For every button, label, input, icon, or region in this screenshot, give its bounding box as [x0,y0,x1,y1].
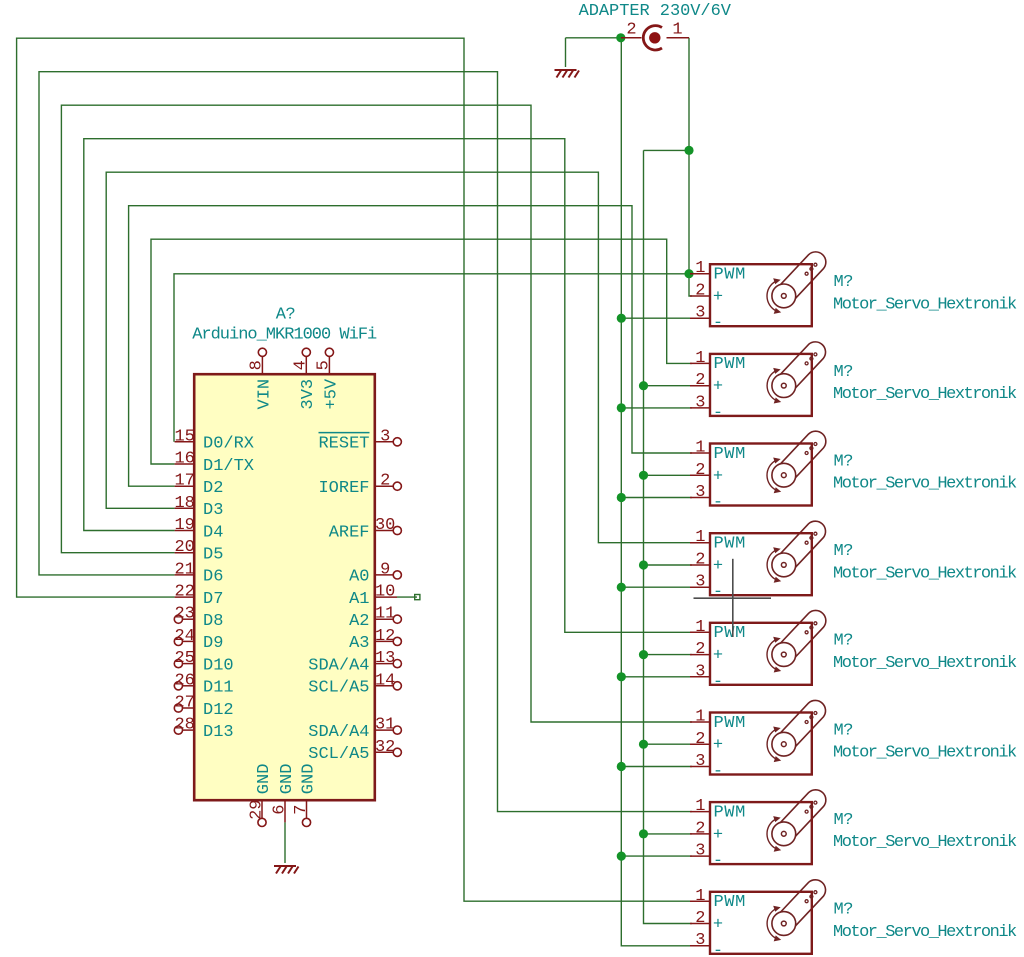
svg-text:21: 21 [174,560,194,579]
pin 9 A0 [375,574,393,576]
svg-text:27: 27 [174,694,194,713]
pin 3 RESET [375,441,393,443]
pin 11 A2 [375,618,393,620]
svg-text:D0/RX: D0/RX [203,435,254,454]
servo arm dots (M3) [805,452,808,455]
servo body box (M2) [710,354,812,416]
svg-text:3: 3 [695,304,705,323]
svg-text:PWM: PWM [714,266,746,285]
junction [684,146,693,155]
connector J1 ADAPTER barrel jack [621,26,689,50]
pin 1 PWM (M7) [690,811,710,813]
svg-text:GND: GND [278,764,297,795]
pin 2 + (M3) [690,474,710,476]
svg-text:-: - [713,494,723,513]
svg-text:9: 9 [380,560,390,579]
wire A1 stub [397,596,417,598]
pin 25 D10 [183,663,195,665]
junction [639,471,648,480]
servo hub circle (M1) [772,284,796,308]
pin 10 A1 [375,596,397,598]
pin 1 PWM (M6) [690,721,710,723]
wire D5 to servo M6 PWM [61,105,692,722]
junction [617,403,626,412]
svg-text:A3: A3 [349,634,369,653]
svg-text:-: - [713,583,723,602]
svg-text:D4: D4 [203,523,223,542]
junction [617,314,626,323]
svg-text:24: 24 [174,627,194,646]
wire D2 to servo M3 PWM [129,206,692,487]
servo hub circle (M8) [772,912,796,936]
svg-text:2: 2 [695,819,705,838]
svg-text:12: 12 [375,627,395,646]
svg-text:18: 18 [174,494,194,513]
wire +6V branch to servo M5 [644,654,693,656]
svg-text:16: 16 [174,450,194,469]
servo rotation arrow (M1) [767,281,776,311]
svg-text:2: 2 [695,461,705,480]
svg-text:31: 31 [375,716,395,735]
wire GND branch to servo M3 [621,497,692,499]
svg-text:1: 1 [695,439,705,458]
pin 3 - (M8) [690,945,710,947]
servo body box (M8) [710,892,812,954]
pin 14 SCL/A5 [375,685,393,687]
pin 16 D1/TX [175,463,195,465]
junction [639,740,648,749]
wire D6 to servo M7 PWM [39,72,692,812]
wire +6V feed from adapter pin1 [689,38,692,296]
wire +6V branch to servo M4 [644,564,693,566]
svg-text:11: 11 [375,605,395,624]
servo arm (M1) [776,252,825,303]
servo arm (M4) [776,521,825,572]
svg-text:14: 14 [375,671,395,690]
wire GND branch to servo M7 [621,855,692,857]
svg-text:SCL/A5: SCL/A5 [308,679,369,698]
svg-text:5: 5 [314,360,333,370]
svg-text:30: 30 [375,516,395,535]
pin 29 GND (bottom) [261,800,263,818]
junction [617,672,626,681]
motor M6 Motor_Servo_Hextronik [690,700,1017,781]
servo hub circle (M2) [772,374,796,398]
svg-text:A1: A1 [349,590,369,609]
svg-text:A0: A0 [349,568,369,587]
svg-text:D9: D9 [203,634,223,653]
svg-text:PWM: PWM [714,893,746,912]
svg-text:-: - [713,942,723,957]
wire GND branch to servo M4 [621,586,692,588]
wire +6V branch to servo M2 [644,385,693,387]
svg-text:D11: D11 [203,679,234,698]
svg-text:ADAPTER 230V/6V: ADAPTER 230V/6V [579,2,732,21]
pin 3 - (M4) [690,586,710,588]
svg-text:PWM: PWM [714,535,746,554]
svg-text:M?: M? [834,721,853,740]
svg-text:PWM: PWM [714,714,746,733]
svg-text:M?: M? [834,901,853,920]
pin 1 PWM (M2) [690,362,710,364]
pin 2 + (M4) [690,564,710,566]
svg-text:3: 3 [695,393,705,412]
svg-text:Motor_Servo_Hextronik: Motor_Servo_Hextronik [833,654,1017,673]
svg-text:2: 2 [695,371,705,390]
svg-text:1: 1 [695,708,705,727]
svg-text:20: 20 [174,538,194,557]
servo arm (M2) [776,342,825,393]
servo arm (M6) [776,700,825,751]
svg-text:Motor_Servo_Hextronik: Motor_Servo_Hextronik [833,385,1017,404]
servo rotation arrow (M7) [767,819,776,849]
svg-text:3: 3 [695,662,705,681]
svg-text:4: 4 [291,360,310,370]
svg-text:GND: GND [299,764,318,795]
servo body box (M3) [710,444,812,506]
junction [617,852,626,861]
wire +6V tap to bus [644,149,690,151]
svg-text:M?: M? [834,363,853,382]
motor M7 Motor_Servo_Hextronik [690,790,1017,871]
wire D0 to servo M1 PWM [174,274,692,442]
stray cross vertical [732,559,734,637]
wire adapter pin2 to ground [566,37,621,39]
svg-text:+: + [713,378,723,397]
wire ground stem [565,38,567,67]
svg-text:3: 3 [695,842,705,861]
ground adapter [555,70,580,78]
svg-text:M?: M? [834,542,853,561]
svg-text:29: 29 [248,799,267,819]
pin 5 +5V (top) [328,356,330,374]
junction [639,560,648,569]
motor M4 Motor_Servo_Hextronik [690,521,1017,602]
wire GND branch to servo M6 [621,766,692,768]
pin 3 - (M3) [690,497,710,499]
pin 1 PWM (M1) [690,273,710,275]
svg-text:IOREF: IOREF [318,479,369,498]
wire +6V branch to servo M3 [644,474,693,476]
svg-text:15: 15 [174,427,194,446]
svg-text:2: 2 [626,20,636,39]
svg-text:25: 25 [174,649,194,668]
pin 1 PWM (M8) [690,900,710,902]
junction [617,493,626,502]
servo arm (M3) [776,431,825,482]
svg-text:+: + [713,736,723,755]
servo arm dots (M5) [805,631,808,634]
svg-text:-: - [713,852,723,871]
servo hub circle (M5) [772,643,796,667]
svg-text:D5: D5 [203,546,223,565]
wire +6V branch to servo M7 [644,833,693,835]
svg-text:+: + [713,826,723,845]
servo arm (M8) [776,880,825,931]
svg-text:2: 2 [695,640,705,659]
pin 20 D5 [175,552,195,554]
wire D4 to servo M5 PWM [84,139,692,633]
svg-text:D6: D6 [203,568,223,587]
servo hub circle (M4) [772,553,796,577]
servo arm (M5) [776,610,825,661]
pin 7 GND (bottom) [306,800,308,818]
junction [617,583,626,592]
svg-text:1: 1 [695,797,705,816]
pin 4 3V3 (top) [305,356,307,374]
junction [639,829,648,838]
pin 23 D8 [183,618,195,620]
wire GND bus [621,38,692,946]
wire +6V branch to servo M6 [644,743,693,745]
servo hub circle (M7) [772,822,796,846]
svg-text:D8: D8 [203,612,223,631]
svg-text:+: + [713,467,723,486]
svg-text:7: 7 [292,805,311,815]
wire GND branch to servo M2 [621,407,692,409]
svg-text:22: 22 [174,583,194,602]
svg-text:1: 1 [695,618,705,637]
svg-text:D12: D12 [203,701,234,720]
svg-text:19: 19 [174,516,194,535]
motor M2 Motor_Servo_Hextronik [690,342,1017,423]
junction [617,762,626,771]
svg-text:GND: GND [255,764,274,795]
servo hub circle (M3) [772,463,796,487]
pin 2 + (M2) [690,385,710,387]
pin 26 D11 [183,685,195,687]
svg-text:26: 26 [174,671,194,690]
servo arm dots (M8) [805,900,808,903]
servo arm dots (M6) [805,721,808,724]
wire D7 to servo M8 PWM [17,38,692,901]
motor M5 Motor_Servo_Hextronik [690,610,1017,691]
svg-text:+: + [713,288,723,307]
svg-text:2: 2 [380,472,390,491]
wire GND branch to servo M1 [621,317,692,319]
svg-text:D10: D10 [203,656,234,675]
svg-text:3V3: 3V3 [299,379,318,410]
svg-text:3: 3 [695,483,705,502]
pin 2 + (M5) [690,654,710,656]
svg-text:3: 3 [695,752,705,771]
pin 3 - (M7) [690,855,710,857]
wire +6V bus [644,150,693,923]
pin 1 PWM (M5) [690,631,710,633]
pin 32 SCL/A5 [375,751,393,753]
svg-text:D13: D13 [203,723,234,742]
pin 28 D13 [183,729,195,731]
junction [684,269,693,278]
svg-text:M?: M? [834,452,853,471]
svg-text:D2: D2 [203,479,223,498]
pin 3 - (M6) [690,766,710,768]
svg-text:PWM: PWM [714,624,746,643]
svg-text:2: 2 [695,909,705,928]
wire pin6 to ground [284,822,286,863]
svg-text:2: 2 [695,282,705,301]
wire D1 to servo M2 PWM [151,239,692,464]
ground below Arduino [274,866,299,874]
servo arm dots (M4) [805,541,808,544]
unconnected square node A1 [415,595,420,600]
svg-text:PWM: PWM [714,803,746,822]
svg-text:-: - [713,314,723,333]
svg-text:6: 6 [271,805,290,815]
pin 2 + (M6) [690,743,710,745]
pin 8 VIN (top) [261,356,263,374]
svg-text:VIN: VIN [255,379,274,410]
servo rotation arrow (M5) [767,640,776,670]
svg-text:2: 2 [695,551,705,570]
svg-text:Arduino_MKR1000 WiFi: Arduino_MKR1000 WiFi [192,326,377,345]
servo rotation arrow (M3) [767,461,776,491]
servo rotation arrow (M6) [767,730,776,760]
svg-text:10: 10 [375,583,395,602]
svg-text:17: 17 [174,472,194,491]
pin 31 SDA/A4 [375,729,393,731]
pin 19 D4 [175,530,195,532]
servo rotation arrow (M2) [767,371,776,401]
svg-text:-: - [713,404,723,423]
svg-text:D3: D3 [203,501,223,520]
IC A? Arduino_MKR1000_WiFi body [194,374,375,800]
junction [639,650,648,659]
pin 18 D3 [175,507,195,509]
svg-text:1: 1 [695,349,705,368]
svg-text:A2: A2 [349,612,369,631]
svg-text:D7: D7 [203,590,223,609]
servo rotation arrow (M4) [767,550,776,580]
svg-text:8: 8 [247,360,266,370]
pin 3 - (M2) [690,407,710,409]
svg-text:Motor_Servo_Hextronik: Motor_Servo_Hextronik [833,564,1017,583]
wire GND branch to servo M5 [621,676,692,678]
svg-text:+: + [713,557,723,576]
wire D3 to servo M4 PWM [106,172,692,543]
pin 24 D9 [183,640,195,642]
svg-text:23: 23 [174,605,194,624]
motor M3 Motor_Servo_Hextronik [690,431,1017,512]
pin 17 D2 [175,485,195,487]
svg-text:Motor_Servo_Hextronik: Motor_Servo_Hextronik [833,295,1017,314]
svg-text:32: 32 [375,738,395,757]
svg-text:SDA/A4: SDA/A4 [308,723,369,742]
svg-text:+: + [713,916,723,935]
svg-text:+5V: +5V [322,378,341,409]
pin 13 SDA/A4 [375,663,393,665]
pin 2 + (M1) [690,295,710,297]
svg-text:3: 3 [380,427,390,446]
servo body box (M1) [710,264,812,326]
pin 12 A3 [375,640,393,642]
motor M1 Motor_Servo_Hextronik [690,252,1017,333]
servo arm dots (M2) [805,362,808,365]
svg-text:PWM: PWM [714,445,746,464]
pin 1 PWM (M4) [690,542,710,544]
pin 6 GND (bottom) [284,800,286,822]
svg-text:M?: M? [834,273,853,292]
svg-text:Motor_Servo_Hextronik: Motor_Servo_Hextronik [833,833,1017,852]
svg-text:D1/TX: D1/TX [203,457,254,476]
servo body box (M7) [710,802,812,864]
servo arm dots (M1) [805,272,808,275]
svg-text:1: 1 [672,20,682,39]
pin 21 D6 [175,574,195,576]
pin 22 D7 [175,596,195,598]
junction [616,33,625,42]
pin 3 - (M5) [690,676,710,678]
pin 2 IOREF [375,485,393,487]
pin 2 + (M7) [690,833,710,835]
svg-text:3: 3 [695,573,705,592]
svg-text:SDA/A4: SDA/A4 [308,656,369,675]
svg-text:M?: M? [834,811,853,830]
servo arm dots (M7) [805,810,808,813]
servo hub circle (M6) [772,732,796,756]
svg-text:-: - [713,673,723,692]
svg-text:Motor_Servo_Hextronik: Motor_Servo_Hextronik [833,475,1017,494]
servo rotation arrow (M8) [767,909,776,939]
pin 15 D0/RX [175,441,195,443]
servo body box (M6) [710,713,812,775]
svg-text:RESET: RESET [318,435,369,454]
pin 2 + (M8) [690,923,710,925]
pin 30 AREF [375,530,393,532]
pin 1 PWM (M3) [690,452,710,454]
pin 3 - (M1) [690,317,710,319]
svg-text:+: + [713,647,723,666]
svg-text:1: 1 [695,259,705,278]
svg-text:A?: A? [276,306,295,325]
svg-text:SCL/A5: SCL/A5 [308,745,369,764]
servo body box (M4) [710,533,812,595]
svg-text:2: 2 [695,730,705,749]
svg-text:M?: M? [834,632,853,651]
stray cross horizontal [694,597,772,599]
svg-text:13: 13 [375,649,395,668]
svg-text:AREF: AREF [329,523,370,542]
svg-text:3: 3 [695,931,705,950]
svg-text:Motor_Servo_Hextronik: Motor_Servo_Hextronik [833,744,1017,763]
svg-text:1: 1 [695,528,705,547]
svg-text:1: 1 [695,887,705,906]
servo body box (M5) [710,623,812,685]
motor M8 Motor_Servo_Hextronik [690,880,1017,957]
svg-text:Motor_Servo_Hextronik: Motor_Servo_Hextronik [833,923,1017,942]
svg-text:28: 28 [174,716,194,735]
junction [639,381,648,390]
svg-text:PWM: PWM [714,355,746,374]
pin 27 D12 [183,707,195,709]
RESET overline [319,432,370,434]
svg-text:-: - [713,763,723,782]
servo arm (M7) [776,790,825,841]
